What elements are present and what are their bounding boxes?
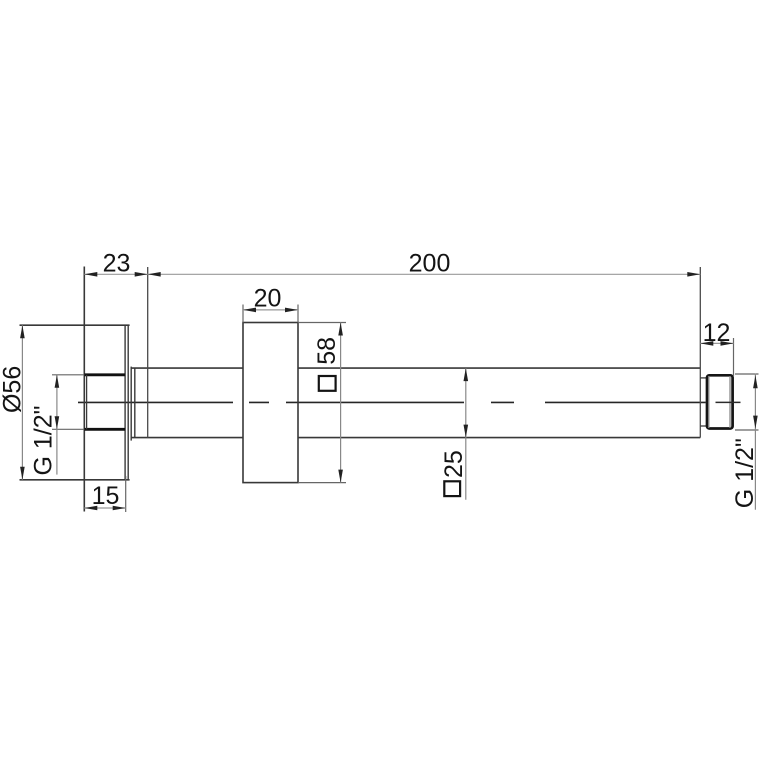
flange right face inner line	[124, 325, 126, 480]
dimension D56 line	[21, 325, 23, 480]
collar ring line 2	[134, 368, 136, 438]
dimension G1/2 left extension top	[52, 374, 84, 376]
thread tip relief line left	[708, 376, 710, 428]
dimension 20 extension right	[297, 305, 299, 323]
dimension 12 extension right	[733, 338, 735, 376]
tube bottom edge right segment	[298, 437, 700, 439]
dimension G1/2 right arrow bottom	[753, 416, 758, 429]
dimension 58 square symbol	[319, 376, 336, 391]
dimension 23 line	[84, 273, 147, 275]
dimension 15 arrow right	[113, 506, 126, 511]
dimension 12 arrow left	[700, 341, 713, 346]
tip connector top	[700, 377, 707, 379]
dimension 20 arrow left	[243, 308, 256, 313]
dimension 20 arrow right	[285, 308, 298, 313]
thread G1/2 bottom line	[84, 428, 125, 431]
thread tip relief line right	[729, 376, 731, 428]
svg-text:58: 58	[313, 337, 341, 365]
thread G1/2 top line	[84, 373, 125, 376]
svg-text:G 1/2": G 1/2"	[731, 438, 759, 508]
svg-text:200: 200	[409, 250, 451, 278]
dimension 25 square symbol	[444, 481, 460, 496]
thread tip outline	[707, 375, 733, 428]
collar ring line 1	[130, 367, 132, 441]
dimension 25 line	[465, 368, 467, 500]
dimension G1/2 right arrow top	[753, 375, 758, 388]
dimension 200 arrow right	[687, 272, 700, 277]
flange right face outer line	[127, 325, 129, 480]
dimension 23 arrow right	[135, 272, 148, 277]
dimension G1/2 left arrow bottom	[55, 416, 60, 429]
dimension G1/2 right line	[754, 374, 756, 510]
dimension 12 line	[700, 342, 733, 344]
tube top edge right segment	[298, 367, 700, 369]
dimension G1/2 right extension top	[735, 373, 759, 375]
dimension 25 arrow top	[464, 368, 469, 381]
flange bottom edge	[20, 479, 130, 481]
dimension 25 arrow bottom	[464, 425, 469, 438]
centerline	[78, 401, 706, 403]
dimension 58 extension bottom	[298, 482, 346, 484]
dimension 15 line	[84, 507, 125, 509]
dimension G1/2 right extension bottom	[735, 429, 759, 431]
tube joint line / 23-200 extension	[147, 267, 149, 438]
dimension 20 line	[243, 309, 298, 311]
svg-text:25: 25	[440, 450, 468, 478]
dimension 200 arrow left	[148, 272, 161, 277]
thread left end line	[86, 375, 88, 430]
dimension 58 extension top	[298, 322, 346, 324]
dimension 58 arrow top	[338, 323, 343, 336]
dimension 15 arrow left	[84, 506, 97, 511]
dimension 58 line	[340, 323, 342, 483]
svg-text:23: 23	[103, 249, 131, 277]
svg-text:20: 20	[254, 284, 282, 312]
dimension 200 line	[148, 273, 701, 275]
dimension G1/2 left extension bottom	[52, 428, 84, 430]
centerline dash over tip	[716, 401, 741, 403]
tip connector bottom	[700, 425, 707, 427]
dimension D56 arrow bottom	[20, 467, 25, 480]
svg-text:15: 15	[92, 482, 120, 510]
dimension 12 arrow right	[721, 341, 734, 346]
svg-text:G 1/2": G 1/2"	[30, 405, 58, 475]
dimension G1/2 left arrow top	[55, 375, 60, 388]
dimension D56 arrow top	[20, 325, 25, 338]
svg-text:12: 12	[703, 319, 731, 347]
svg-text:Ø56: Ø56	[0, 366, 27, 413]
dimension 23 arrow left	[84, 272, 97, 277]
dimension 20 extension left	[242, 305, 244, 323]
tube right end line / 200-12 extension	[699, 267, 701, 438]
dimension G1/2 left line	[56, 375, 58, 475]
dimension 15 extension right	[125, 476, 127, 512]
tube bottom edge left segment	[131, 437, 243, 439]
dimension 58 arrow bottom	[338, 470, 343, 483]
block 58x58	[243, 323, 298, 483]
flange top edge	[20, 324, 130, 326]
flange left face / extension line	[83, 267, 85, 512]
tube top edge left segment	[131, 367, 243, 369]
